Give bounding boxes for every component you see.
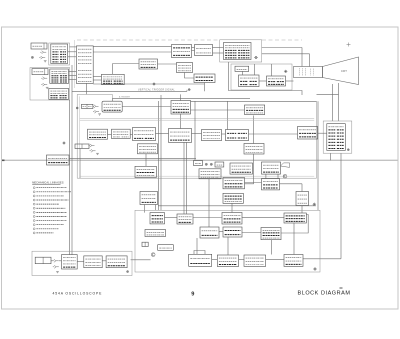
- svg-text:BLOCK DIAGRAM: BLOCK DIAGRAM: [298, 291, 351, 297]
- svg-text:9: 9: [191, 291, 194, 297]
- svg-text:A TRIGGER: A TRIGGER: [118, 96, 130, 99]
- svg-text:CRT: CRT: [341, 69, 347, 73]
- svg-text:VERTICAL TRIGGER SIGNAL: VERTICAL TRIGGER SIGNAL: [138, 88, 176, 91]
- svg-text:454A OSCILLOSCOPE: 454A OSCILLOSCOPE: [53, 292, 103, 296]
